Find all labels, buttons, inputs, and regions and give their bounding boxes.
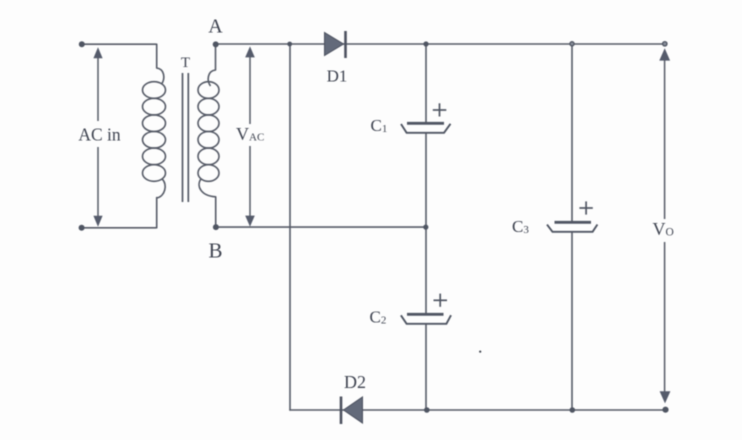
wire: secondary stem top (node A down) xyxy=(215,44,217,70)
wire: bottom rail xyxy=(290,409,666,411)
svg-text:C3: C3 xyxy=(512,217,529,236)
junction: C3 top xyxy=(570,42,574,46)
VAC arrow xyxy=(249,56,251,216)
node B xyxy=(213,224,219,230)
node: top right end xyxy=(663,42,667,46)
junction: C2 bottom xyxy=(424,407,430,413)
stray scan speck xyxy=(479,351,481,353)
terminal: AC left bottom xyxy=(79,225,85,231)
transformer T secondary winding xyxy=(198,70,219,197)
svg-text:A: A xyxy=(208,16,223,38)
wire: C2 branch lower xyxy=(425,325,427,411)
wire: C1 branch lower xyxy=(425,134,427,228)
wire: C3 branch upper xyxy=(571,44,573,221)
junction: C3 bottom xyxy=(570,407,576,413)
wire: primary stem top xyxy=(156,44,158,68)
junction: C1 top xyxy=(423,41,428,46)
svg-text:VAC: VAC xyxy=(236,124,264,144)
svg-text:D1: D1 xyxy=(327,67,348,86)
node: bottom right end xyxy=(662,407,668,413)
capacitor C3 xyxy=(547,222,597,232)
junction: B wire / C1-C2 xyxy=(423,225,428,230)
wire: C1 branch upper xyxy=(425,44,427,122)
transformer T core xyxy=(183,73,189,202)
wire: primary stem bottom xyxy=(156,198,158,228)
wire: secondary stem bottom (to node B) xyxy=(215,197,217,227)
svg-text:B: B xyxy=(208,239,222,263)
wire: C2 branch upper xyxy=(425,227,427,313)
svg-text:C2: C2 xyxy=(370,308,387,327)
Vo arrow xyxy=(664,60,666,393)
junction: A-net to top rail xyxy=(287,42,292,47)
transformer T primary winding xyxy=(143,68,166,198)
terminal: AC left top xyxy=(79,41,85,47)
wire: bottom-left from left terminal to primary xyxy=(82,227,156,229)
wire: C3 branch lower xyxy=(571,233,573,410)
svg-text:C1: C1 xyxy=(371,116,388,135)
diode D2 xyxy=(341,397,363,425)
wire: node B horizontal to C1/C2 junction xyxy=(216,226,426,228)
svg-text:D2: D2 xyxy=(344,372,366,392)
diode D1 xyxy=(325,31,346,58)
wire: top-left from left terminal to primary xyxy=(82,43,156,45)
capacitor C1 xyxy=(401,123,451,133)
svg-text:VO: VO xyxy=(653,219,674,239)
capacitor C2 xyxy=(401,314,451,324)
svg-text:AC in: AC in xyxy=(78,125,121,145)
wire: top rail A to right end xyxy=(216,43,665,45)
svg-text:T: T xyxy=(181,55,190,71)
wire: vertical branch from top rail (A net) down to bottom rail xyxy=(289,44,291,410)
AC in arrow xyxy=(97,57,99,216)
node A xyxy=(213,41,219,47)
